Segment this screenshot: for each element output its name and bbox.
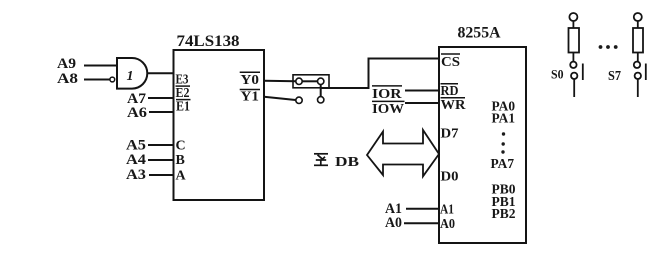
svg-text:A8: A8 <box>57 71 78 87</box>
svg-text:C: C <box>176 139 186 154</box>
svg-text:CS: CS <box>441 55 460 70</box>
svg-text:A4: A4 <box>126 152 147 168</box>
svg-text:Y1: Y1 <box>241 89 260 104</box>
svg-text:RD: RD <box>441 84 459 99</box>
svg-text:DB: DB <box>335 155 359 170</box>
svg-text:PA7: PA7 <box>491 157 515 172</box>
svg-text:A0: A0 <box>385 215 402 231</box>
svg-text:A0: A0 <box>440 217 455 232</box>
svg-text:S7: S7 <box>608 68 621 83</box>
svg-text:1: 1 <box>127 69 134 84</box>
svg-text:A9: A9 <box>57 56 76 72</box>
svg-text:A: A <box>176 169 187 184</box>
svg-text:A1: A1 <box>440 203 454 218</box>
svg-text:8255A: 8255A <box>458 25 501 42</box>
svg-text:74LS138: 74LS138 <box>177 33 240 50</box>
svg-text:WR: WR <box>441 98 467 113</box>
svg-text:Y0: Y0 <box>241 73 260 88</box>
svg-text:PB2: PB2 <box>492 207 516 222</box>
svg-text:D0: D0 <box>441 170 459 185</box>
svg-text:PA1: PA1 <box>492 112 516 127</box>
svg-text:E1: E1 <box>176 100 190 115</box>
svg-text:A6: A6 <box>127 105 148 121</box>
svg-text:B: B <box>176 153 185 168</box>
svg-text:A3: A3 <box>126 167 146 183</box>
svg-text:D7: D7 <box>441 127 459 142</box>
svg-text:IOR: IOR <box>372 87 402 102</box>
svg-text:S0: S0 <box>551 67 564 82</box>
svg-text:IOW: IOW <box>372 102 404 117</box>
